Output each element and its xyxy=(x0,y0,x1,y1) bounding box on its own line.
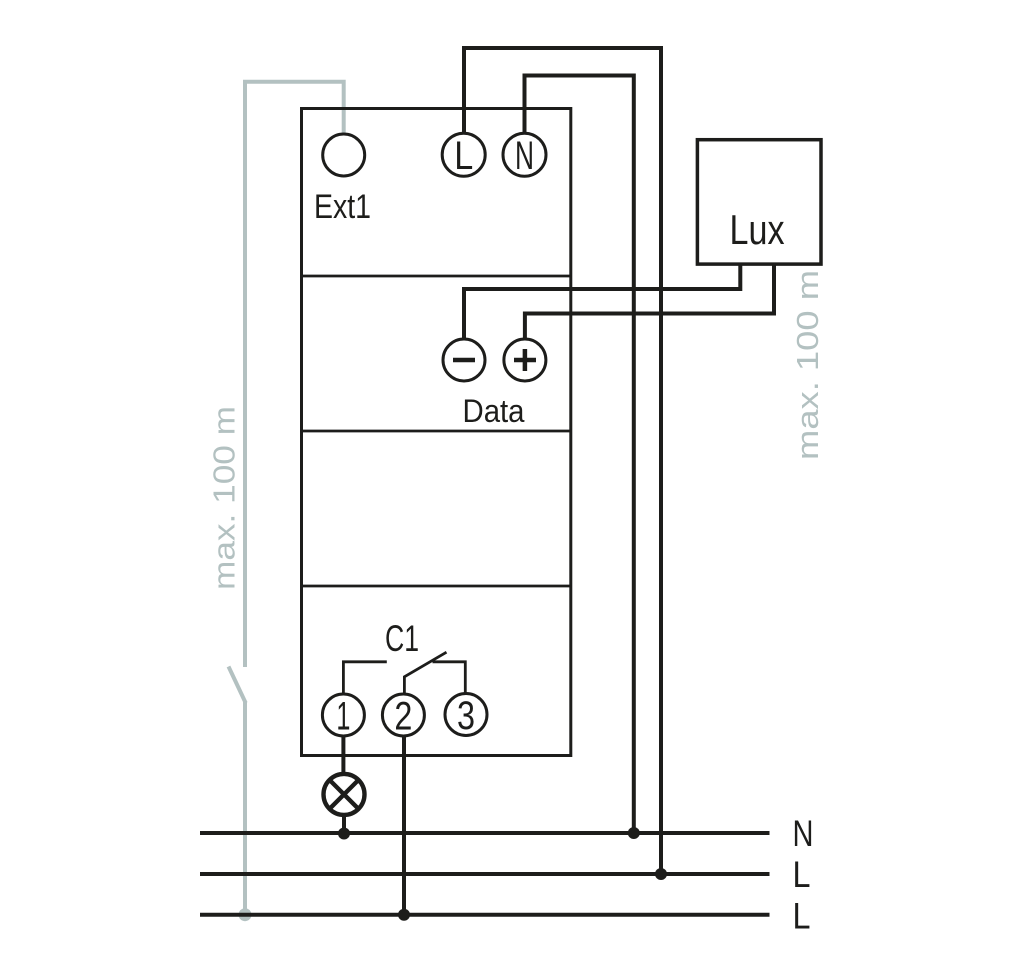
terminal L xyxy=(442,133,485,176)
svg-text:1: 1 xyxy=(336,695,350,739)
bus line L (bottom) xyxy=(200,913,770,917)
section divider 3 xyxy=(302,585,571,588)
junction: gray wire on L bus xyxy=(239,908,252,921)
junction: terminal 2 wire on bottom L bus xyxy=(398,909,410,921)
bus line N xyxy=(200,831,770,835)
svg-text:N: N xyxy=(793,812,814,854)
switch S (gray) blade in external wire xyxy=(229,667,246,704)
wire: terminal 1 to lamp xyxy=(341,736,345,774)
relay contact: fixed contact from terminal 1 xyxy=(343,662,386,694)
junction: lamp on N bus xyxy=(338,828,350,840)
terminal 2 xyxy=(382,694,424,736)
svg-text:Data: Data xyxy=(463,393,525,429)
svg-text:Lux: Lux xyxy=(730,206,785,253)
svg-text:2: 2 xyxy=(394,695,412,739)
svg-text:Ext1: Ext1 xyxy=(314,188,371,226)
wire: terminal 2 to bottom L bus xyxy=(402,736,406,915)
svg-text:3: 3 xyxy=(457,694,475,738)
bus line L (middle) xyxy=(200,872,770,876)
wire: lamp to N bus xyxy=(342,815,346,833)
lamp E1 (circle with X) xyxy=(324,774,365,815)
Lux sensor box xyxy=(697,140,821,264)
junction: N wire on N bus xyxy=(628,827,640,839)
section divider 1 xyxy=(302,275,571,278)
svg-text:N: N xyxy=(515,134,534,178)
wire: plus terminal to Lux box xyxy=(525,265,774,339)
wire: external switch feed (gray) from Ext1 up-over-left and down xyxy=(245,82,344,667)
svg-text:L: L xyxy=(793,853,811,895)
terminal 1 xyxy=(322,694,364,736)
wire: minus terminal to Lux box xyxy=(464,265,740,339)
wire: N terminal to N bus (up, right, down) xyxy=(525,76,634,834)
terminal minus (-) xyxy=(443,339,485,381)
junction: L wire on middle L bus xyxy=(655,868,667,880)
svg-text:max. 100 m: max. 100 m xyxy=(207,406,242,590)
terminal N xyxy=(503,133,546,176)
svg-text:C1: C1 xyxy=(385,618,419,659)
wire: L terminal to L bus (up, right, down) xyxy=(464,48,661,874)
device outline box xyxy=(302,109,571,756)
wire: gray from switch down to bottom L bus xyxy=(243,702,247,915)
section divider 2 xyxy=(302,430,571,433)
relay switch blade C1 xyxy=(404,652,446,694)
svg-text:max. 100 m: max. 100 m xyxy=(790,270,825,460)
svg-text:L: L xyxy=(454,134,473,178)
terminal plus (+) xyxy=(504,339,546,381)
terminal 3 xyxy=(445,694,487,736)
terminal Ext1 xyxy=(323,134,365,176)
svg-text:L: L xyxy=(793,895,811,937)
relay contact: fixed contact to terminal 3 xyxy=(433,662,466,694)
